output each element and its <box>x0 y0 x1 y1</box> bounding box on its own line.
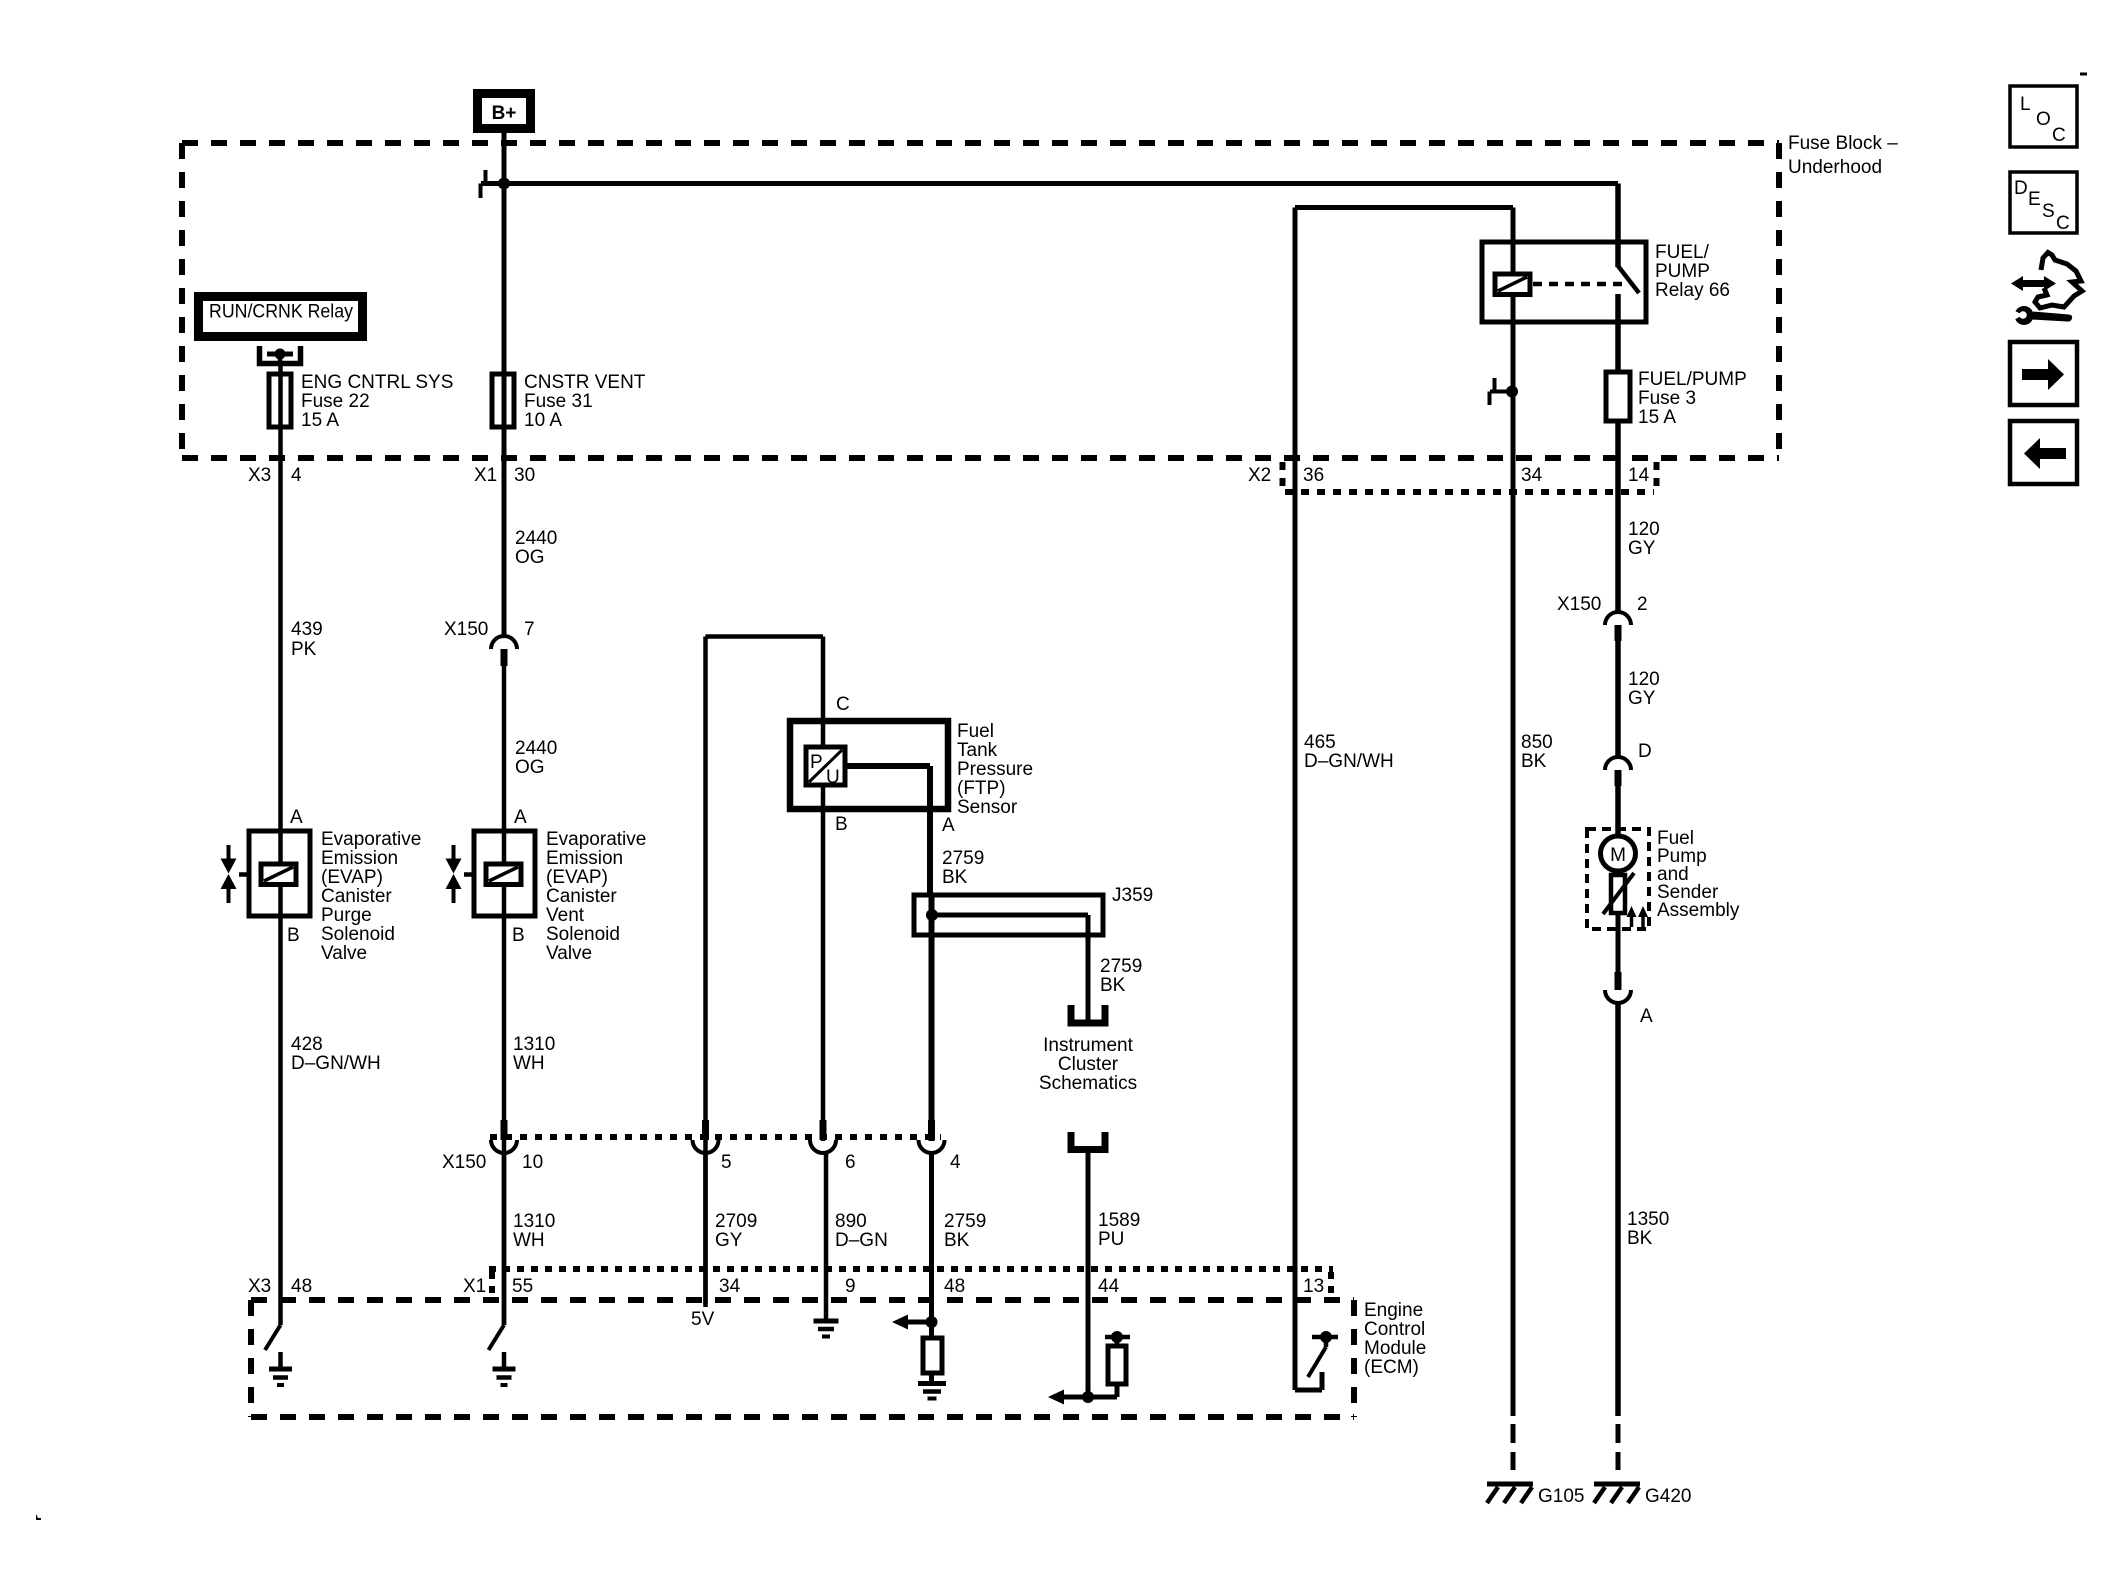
svg-text:55: 55 <box>512 1276 533 1297</box>
wire 1589 PU to ECM pin 44 <box>1086 1149 1091 1397</box>
label Evaporative Emission EVAP Canister Purge Solenoid Valve <box>321 829 421 964</box>
svg-text:B: B <box>287 925 300 946</box>
wire 2759 BK from J359 down to X150 pin 4 <box>929 896 935 1141</box>
ground G420 chassis symbol <box>1594 1484 1691 1507</box>
svg-text:Cluster: Cluster <box>1058 1054 1119 1075</box>
RUN/CRNK Relay label box <box>199 297 363 337</box>
svg-text:BK: BK <box>1100 975 1126 996</box>
page mark top right <box>2080 73 2087 76</box>
svg-text:X150: X150 <box>444 619 488 640</box>
svg-text:850: 850 <box>1521 732 1553 753</box>
svg-text:G420: G420 <box>1645 1486 1691 1507</box>
svg-text:2: 2 <box>1637 594 1648 615</box>
wire label 890 D-GN lower <box>835 1211 888 1251</box>
wire relay switch feed vertical <box>1615 184 1621 268</box>
svg-text:GY: GY <box>715 1230 743 1251</box>
connector A of fuel pump <box>1605 972 1653 1027</box>
svg-text:ENG CNTRL SYS: ENG CNTRL SYS <box>301 372 453 393</box>
wire D connector to pump <box>1615 786 1621 838</box>
label Fuse Block - Underhood <box>1788 133 1898 178</box>
svg-text:O: O <box>2036 109 2051 130</box>
connector X150 pin 7 in-line <box>444 619 535 666</box>
wire label 2709 GY lower <box>715 1211 757 1251</box>
dashed tail of 1350 BK wire to ground <box>1616 1424 1621 1470</box>
wire bridge from ECM pin 13 wire to relay coil <box>1295 205 1513 210</box>
svg-text:X150: X150 <box>1557 594 1601 615</box>
FUEL/PUMP Relay 66 box <box>1482 242 1730 322</box>
node X1 pin 30 labels <box>474 465 535 486</box>
svg-text:GY: GY <box>1628 538 1656 559</box>
svg-text:E: E <box>2028 189 2041 210</box>
svg-text:15 A: 15 A <box>301 410 339 431</box>
svg-text:Control: Control <box>1364 1319 1425 1340</box>
wire 850 BK relay coil ground to G105 <box>1511 294 1516 1416</box>
svg-text:Evaporative: Evaporative <box>546 829 646 850</box>
clip splice on 850 BK wire <box>1490 378 1519 405</box>
off-page connector to instrument cluster upper bracket <box>1071 1005 1105 1023</box>
ECM pin 48 internal signal arrow and pull-down resistor <box>892 1315 946 1399</box>
svg-text:D–GN/WH: D–GN/WH <box>1304 751 1394 772</box>
svg-text:D: D <box>2014 178 2028 199</box>
svg-text:Fuse Block –: Fuse Block – <box>1788 133 1898 154</box>
svg-text:J359: J359 <box>1112 885 1153 906</box>
splice junction on B+ feed <box>498 178 510 190</box>
svg-text:Schematics: Schematics <box>1039 1073 1137 1094</box>
svg-text:C: C <box>2052 125 2066 146</box>
splice dot in J359 <box>926 909 938 921</box>
wire label 2759 BK branch <box>1100 956 1142 996</box>
dashed tail of 850 BK wire to ground <box>1511 1424 1516 1470</box>
svg-text:BK: BK <box>1521 751 1547 772</box>
wire 465 D-GN/WH from bridge down to ECM pin 13 <box>1293 208 1298 1391</box>
svg-text:9: 9 <box>845 1276 856 1297</box>
label Evaporative Emission EVAP Canister Vent Solenoid Valve <box>546 829 646 964</box>
svg-text:GY: GY <box>1628 688 1656 709</box>
fuse CNSTR VENT Fuse 31 10A <box>492 372 646 431</box>
wire label 850 BK <box>1521 732 1553 772</box>
svg-text:(EVAP): (EVAP) <box>321 867 383 888</box>
svg-text:439: 439 <box>291 619 323 640</box>
wire label 439 PK <box>291 619 323 660</box>
svg-text:(ECM): (ECM) <box>1364 1357 1419 1378</box>
B+ battery feed box <box>478 94 531 129</box>
svg-text:Valve: Valve <box>546 943 592 964</box>
svg-text:D–GN/WH: D–GN/WH <box>291 1053 381 1074</box>
svg-text:2440: 2440 <box>515 738 557 759</box>
svg-text:Fuse 3: Fuse 3 <box>1638 388 1696 409</box>
svg-text:10 A: 10 A <box>524 410 562 431</box>
connector X150 pin 4 <box>919 1120 962 1173</box>
svg-text:34: 34 <box>1521 465 1543 486</box>
svg-text:1589: 1589 <box>1098 1210 1140 1231</box>
svg-text:34: 34 <box>719 1276 741 1297</box>
svg-text:Relay 66: Relay 66 <box>1655 280 1730 301</box>
wire label 1310 WH upper <box>513 1034 555 1074</box>
wire 890 D-GN through FTP sensor <box>821 637 826 1142</box>
fuse ENG CNTRL SYS Fuse 22 15A <box>269 372 453 431</box>
LOC navigation box <box>2010 86 2077 147</box>
svg-text:OG: OG <box>515 547 545 568</box>
off-page connector from instrument cluster lower bracket <box>1071 1132 1105 1150</box>
connector X150 pin 6 <box>810 1120 856 1173</box>
connector X150 pin 10 <box>491 1120 543 1173</box>
svg-text:2440: 2440 <box>515 528 557 549</box>
svg-text:PUMP: PUMP <box>1655 261 1710 282</box>
svg-text:B+: B+ <box>492 103 517 124</box>
svg-text:13: 13 <box>1303 1276 1324 1297</box>
svg-text:48: 48 <box>291 1276 312 1297</box>
svg-text:1310: 1310 <box>513 1211 555 1232</box>
svg-text:30: 30 <box>514 465 535 486</box>
svg-text:FUEL/PUMP: FUEL/PUMP <box>1638 369 1747 390</box>
wire label 1350 BK <box>1627 1209 1669 1249</box>
svg-text:890: 890 <box>835 1211 867 1232</box>
connector D of fuel pump <box>1605 741 1652 786</box>
svg-text:Assembly: Assembly <box>1657 900 1740 921</box>
wire 120 GY to D connector <box>1615 641 1621 758</box>
fuel level sender variable resistor <box>1603 871 1634 973</box>
fuel pump motor M <box>1601 836 1636 871</box>
wire from Fuse 3 down to X2 pin 14 and X150 <box>1615 421 1621 613</box>
relay coil-to-switch dashed actuator line <box>1533 282 1628 287</box>
fuse FUEL/PUMP Fuse 3 15A <box>1606 369 1747 428</box>
svg-text:Module: Module <box>1364 1338 1426 1359</box>
wire label 1310 WH lower <box>513 1211 555 1251</box>
splice J359 box <box>914 885 1153 935</box>
svg-text:2759: 2759 <box>942 848 984 869</box>
relay switch arm <box>1618 266 1639 293</box>
svg-text:X3: X3 <box>248 465 271 486</box>
connector X1 ECM row dotted line <box>489 1269 1333 1298</box>
svg-text:2709: 2709 <box>715 1211 757 1232</box>
wire relay switch output to FUEL/PUMP fuse <box>1615 294 1621 372</box>
svg-text:A: A <box>514 807 527 828</box>
svg-text:428: 428 <box>291 1034 323 1055</box>
svg-text:A: A <box>942 815 955 836</box>
node X3 pin 4 labels <box>248 465 302 486</box>
svg-text:Instrument: Instrument <box>1043 1035 1133 1056</box>
svg-text:Solenoid: Solenoid <box>546 924 620 945</box>
svg-text:Fuse 31: Fuse 31 <box>524 391 593 412</box>
svg-text:Engine: Engine <box>1364 1300 1423 1321</box>
svg-text:BK: BK <box>1627 1228 1653 1249</box>
svg-text:RUN/CRNK Relay: RUN/CRNK Relay <box>209 302 353 323</box>
svg-text:2759: 2759 <box>944 1211 986 1232</box>
FTP pressure transducer P/U element <box>806 747 845 788</box>
svg-text:48: 48 <box>944 1276 965 1297</box>
wire 2709 GY X150-5 to ECM pin 34 <box>703 1153 708 1304</box>
ECM pin 13 fuel pump relay driver switch <box>1295 1331 1338 1390</box>
svg-text:Solenoid: Solenoid <box>321 924 395 945</box>
svg-text:Fuel: Fuel <box>957 721 994 742</box>
wire label 120 GY lower <box>1628 669 1660 709</box>
svg-text:C: C <box>836 694 850 715</box>
svg-text:Fuse 22: Fuse 22 <box>301 391 370 412</box>
svg-text:PU: PU <box>1098 1229 1124 1250</box>
svg-text:Emission: Emission <box>321 848 398 869</box>
svg-text:Pressure: Pressure <box>957 759 1033 780</box>
svg-text:2759: 2759 <box>1100 956 1142 977</box>
wire label 2759 BK lower <box>944 1211 986 1251</box>
svg-text:A: A <box>290 807 303 828</box>
svg-text:BK: BK <box>944 1230 970 1251</box>
svg-text:120: 120 <box>1628 669 1660 690</box>
wire horizontal B+ feed line to fuel pump relay <box>481 181 1618 186</box>
wire label 465 D-GN/WH <box>1304 732 1394 772</box>
Fuel Pump and Sender Assembly dashed box <box>1587 828 1740 929</box>
svg-text:Vent: Vent <box>546 905 585 926</box>
svg-text:Canister: Canister <box>321 886 392 907</box>
ground G105 chassis symbol <box>1487 1484 1584 1507</box>
svg-text:Purge: Purge <box>321 905 372 926</box>
svg-text:D: D <box>1638 741 1652 762</box>
svg-text:5: 5 <box>721 1152 732 1173</box>
svg-text:Tank: Tank <box>957 740 998 761</box>
svg-text:OG: OG <box>515 757 545 778</box>
svg-text:WH: WH <box>513 1230 545 1251</box>
vent valve pneumatic symbol <box>446 845 462 903</box>
wire 1350 BK pump ground to G420 <box>1615 1003 1621 1416</box>
wire X150-7 to vent valve A <box>502 666 507 1325</box>
wire 1310 WH X150-10 to ECM pin 55 <box>502 1153 507 1325</box>
svg-text:FUEL/: FUEL/ <box>1655 242 1710 263</box>
svg-text:(EVAP): (EVAP) <box>546 867 608 888</box>
back arrow navigation box <box>2010 421 2077 484</box>
wire label 2440 OG upper <box>515 528 557 568</box>
connector X150 pin 2 in-line <box>1557 594 1648 641</box>
wire branch from J359 to instrument cluster <box>932 915 1088 1020</box>
connector X150 pin 5 <box>693 1120 732 1173</box>
svg-text:44: 44 <box>1098 1276 1120 1297</box>
wire FTP output to terminal A <box>845 766 930 896</box>
svg-text:1350: 1350 <box>1627 1209 1669 1230</box>
ECM pin 44 internal pull-up and fuel level signal arrow <box>1048 1331 1130 1405</box>
svg-text:P: P <box>810 752 823 773</box>
svg-text:B: B <box>835 814 848 835</box>
wire 2759 BK X150-4 to ECM pin 48 <box>929 1153 934 1340</box>
svg-text:120: 120 <box>1628 519 1660 540</box>
wire 890 D-GN X150-6 to ECM pin 9 <box>824 1153 829 1320</box>
Fuel Tank Pressure FTP Sensor box <box>790 721 1033 818</box>
svg-text:Underhood: Underhood <box>1788 157 1882 178</box>
svg-text:(FTP): (FTP) <box>957 778 1006 799</box>
svg-text:465: 465 <box>1304 732 1336 753</box>
svg-text:X150: X150 <box>442 1152 486 1173</box>
svg-text:36: 36 <box>1303 465 1324 486</box>
label Instrument Cluster Schematics <box>1039 1035 1137 1094</box>
connector X150 bottom row dotted line <box>490 1134 941 1140</box>
svg-text:Emission: Emission <box>546 848 623 869</box>
svg-text:A: A <box>1640 1006 1653 1027</box>
svg-text:X3: X3 <box>248 1276 271 1297</box>
svg-text:1310: 1310 <box>513 1034 555 1055</box>
svg-text:7: 7 <box>524 619 535 640</box>
svg-text:X1: X1 <box>463 1276 486 1297</box>
Engine Control Module ECM dashed box <box>251 1300 1354 1417</box>
wiring harness navigation icon with double arrow and wrench <box>2011 253 2082 326</box>
svg-text:PK: PK <box>291 639 317 660</box>
svg-text:G105: G105 <box>1538 1486 1584 1507</box>
wire label 2759 BK at FTP A <box>942 848 984 888</box>
svg-text:Evaporative: Evaporative <box>321 829 421 850</box>
label Engine Control Module ECM <box>1364 1300 1426 1378</box>
wire 2709 GY 5V reference from ECM pin 34 <box>706 637 824 1308</box>
svg-text:WH: WH <box>513 1053 545 1074</box>
svg-text:X1: X1 <box>474 465 497 486</box>
svg-text:6: 6 <box>845 1152 856 1173</box>
sender wiper arrows <box>1627 906 1649 927</box>
wire label 2440 OG lower <box>515 738 557 778</box>
svg-text:U: U <box>826 767 840 788</box>
svg-text:B: B <box>512 925 525 946</box>
ECM pin 55 driver switch to ground <box>489 1325 516 1385</box>
svg-text:4: 4 <box>291 465 302 486</box>
ECM pin 9 internal ground <box>814 1321 839 1337</box>
clip symbol at left end of B+ feed line <box>481 170 486 198</box>
svg-text:X2: X2 <box>1248 465 1271 486</box>
svg-text:BK: BK <box>942 867 968 888</box>
svg-text:10: 10 <box>522 1152 543 1173</box>
svg-text:L: L <box>2020 94 2031 115</box>
svg-text:D–GN: D–GN <box>835 1230 888 1251</box>
purge valve pneumatic symbol <box>221 845 237 903</box>
connector X2 row dotted line <box>1283 462 1657 492</box>
ECM pin 48 X3 driver switch to ground <box>265 1325 292 1385</box>
wire label 120 GY upper <box>1628 519 1660 559</box>
svg-text:14: 14 <box>1628 465 1650 486</box>
wire from RUN/CRNK relay through ENG CNTRL SYS fuse down to X3-4 <box>278 366 283 1325</box>
svg-text:5V: 5V <box>691 1309 715 1330</box>
forward arrow navigation box <box>2010 342 2077 405</box>
EVAP canister purge solenoid valve <box>239 831 310 916</box>
DESC navigation box <box>2010 172 2077 234</box>
Fuse Block - Underhood dashed enclosure <box>182 143 1779 461</box>
svg-text:15 A: 15 A <box>1638 407 1676 428</box>
svg-text:M: M <box>1610 845 1626 866</box>
wire relay coil feed vertical <box>1511 208 1516 277</box>
page mark bottom left <box>36 1514 41 1520</box>
svg-text:Canister: Canister <box>546 886 617 907</box>
svg-text:Sensor: Sensor <box>957 797 1018 818</box>
relay output terminal cup under RUN/CRNK relay <box>260 346 301 366</box>
svg-text:CNSTR VENT: CNSTR VENT <box>524 372 646 393</box>
svg-text:S: S <box>2042 201 2055 222</box>
wire label 1589 PU <box>1098 1210 1140 1250</box>
relay coil <box>1495 274 1530 295</box>
wire B+ vertical feed to CNSTR VENT fuse and vent valve <box>502 133 507 638</box>
wire label 428 D-GN/WH <box>291 1034 381 1074</box>
svg-text:4: 4 <box>950 1152 961 1173</box>
EVAP canister vent solenoid valve <box>464 831 535 916</box>
svg-text:C: C <box>2056 213 2070 234</box>
svg-text:Valve: Valve <box>321 943 367 964</box>
